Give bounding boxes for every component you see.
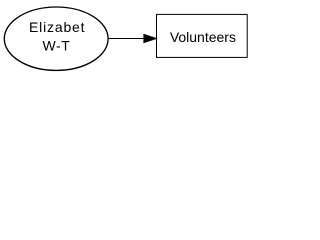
svg-text:Volunteers: Volunteers <box>170 29 236 45</box>
wire: edge from Elizabet W-T to Volunteers <box>108 38 144 40</box>
arrowhead <box>144 34 156 42</box>
svg-text:W-T: W-T <box>42 37 70 53</box>
node Elizabet W-T (ellipse) <box>4 7 108 70</box>
node Volunteers (box) <box>157 14 248 57</box>
svg-text:Elizabet: Elizabet <box>29 19 85 35</box>
